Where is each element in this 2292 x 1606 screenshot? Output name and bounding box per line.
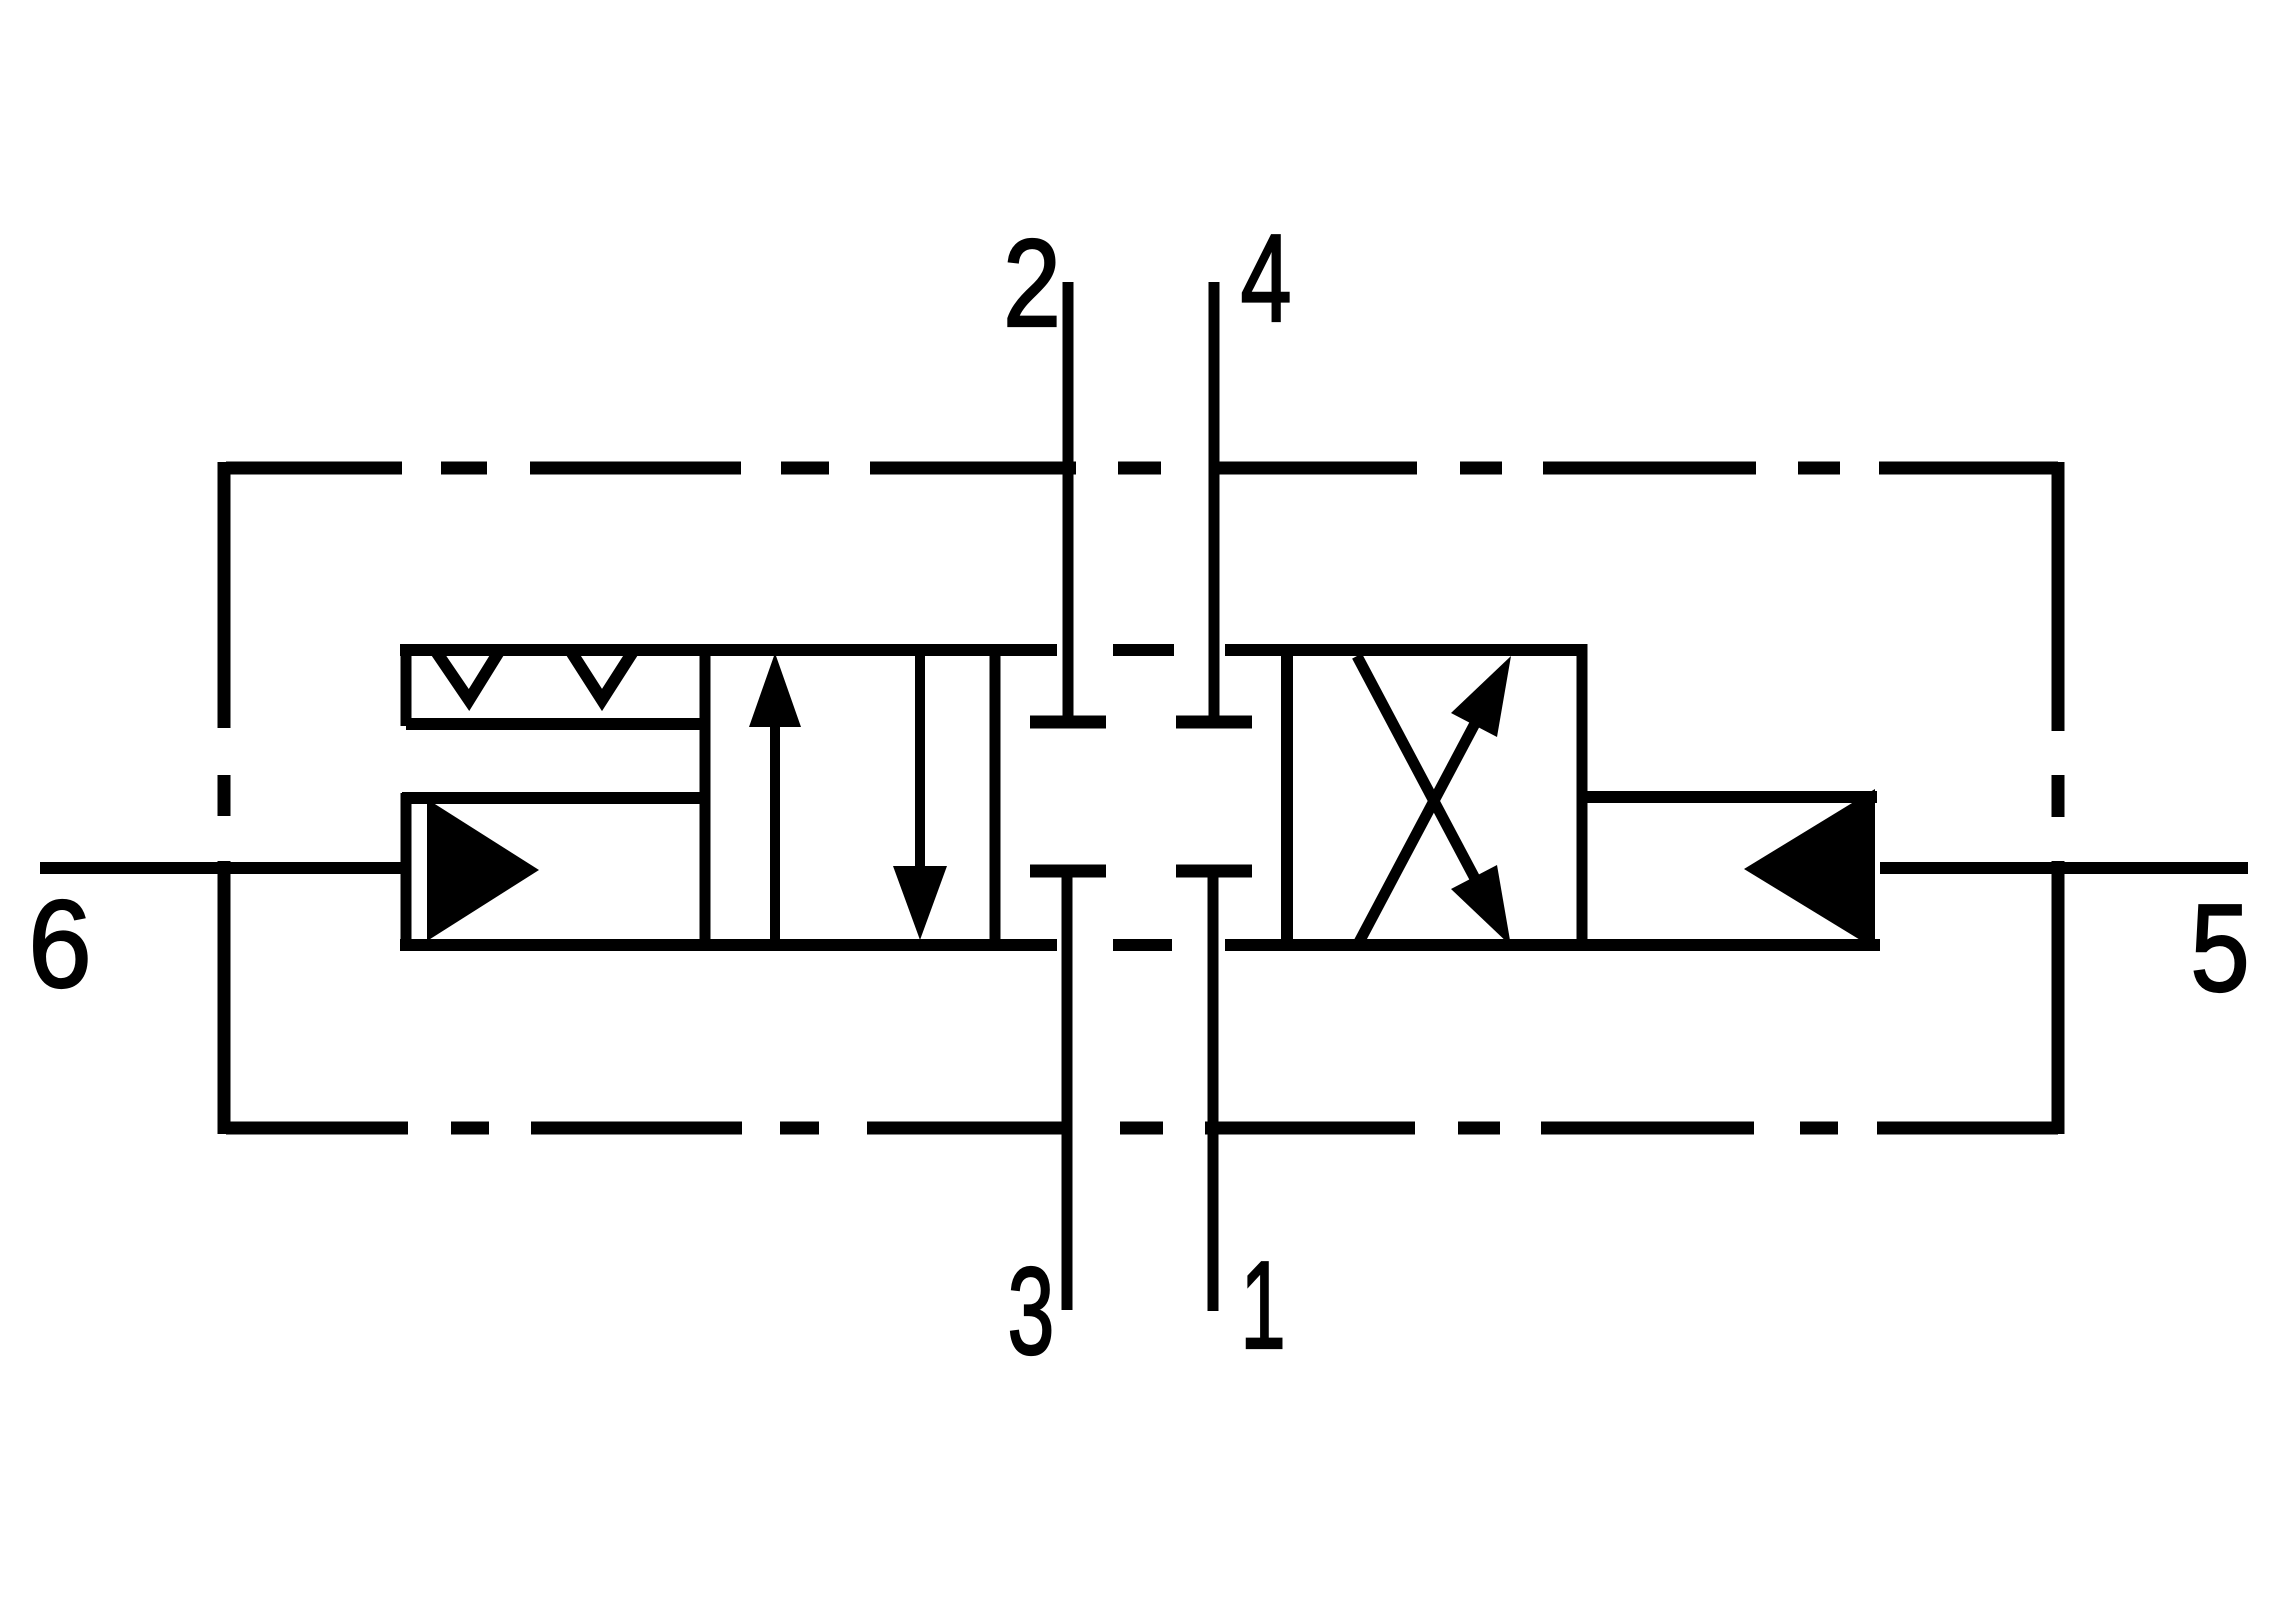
port 3 blocked bar <box>1030 865 1106 878</box>
port 1 blocked bar <box>1176 865 1252 878</box>
detent notched top edge <box>406 650 705 700</box>
solenoid R1 triangle <box>1744 789 1875 949</box>
port 4 blocked bar <box>1176 716 1252 729</box>
crossed flow arrow up-right (right position) <box>1357 714 1480 946</box>
flow arrow up (left position) <box>770 700 780 945</box>
detent box bottom edge <box>406 718 705 730</box>
port 2 stem <box>1063 282 1074 721</box>
valve top edge <box>400 644 1582 656</box>
port 1 stem <box>1208 872 1219 1311</box>
svg-text:4: 4 <box>1240 210 1291 349</box>
port 2 blocked bar <box>1030 716 1106 729</box>
valve bottom edge <box>400 939 1880 951</box>
flow arrow down (left position) <box>915 650 925 900</box>
enclosure dash-dot top edge <box>226 462 2058 475</box>
svg-text:1: 1 <box>1240 1237 1286 1375</box>
valve right edge <box>1577 644 1588 951</box>
enclosure dash-dot bottom edge <box>226 1122 2058 1135</box>
valve left edge <box>700 644 711 951</box>
solenoid L1 triangle <box>427 799 539 941</box>
detent box left edge <box>401 644 412 726</box>
svg-text:3: 3 <box>1008 1243 1055 1381</box>
svg-text:2: 2 <box>1003 214 1061 353</box>
wire port 6 line <box>40 862 406 874</box>
solenoid L1 box top edge <box>402 792 705 804</box>
valve divider left-center <box>990 650 1001 945</box>
wire port 5 line <box>1880 862 2248 874</box>
valve divider center-right <box>1281 650 1293 945</box>
svg-text:5: 5 <box>2190 878 2249 1017</box>
enclosure dash-dot right edge <box>2052 462 2065 1134</box>
solenoid L1 box left edge <box>401 793 412 944</box>
port 3 stem <box>1062 872 1073 1310</box>
enclosure dash-dot left edge <box>218 462 231 1134</box>
solenoid R1 box top edge <box>1582 791 1877 803</box>
port 4 stem <box>1209 282 1220 721</box>
svg-text:6: 6 <box>28 876 91 1014</box>
crossed flow arrow down-right (right position) <box>1357 656 1480 888</box>
